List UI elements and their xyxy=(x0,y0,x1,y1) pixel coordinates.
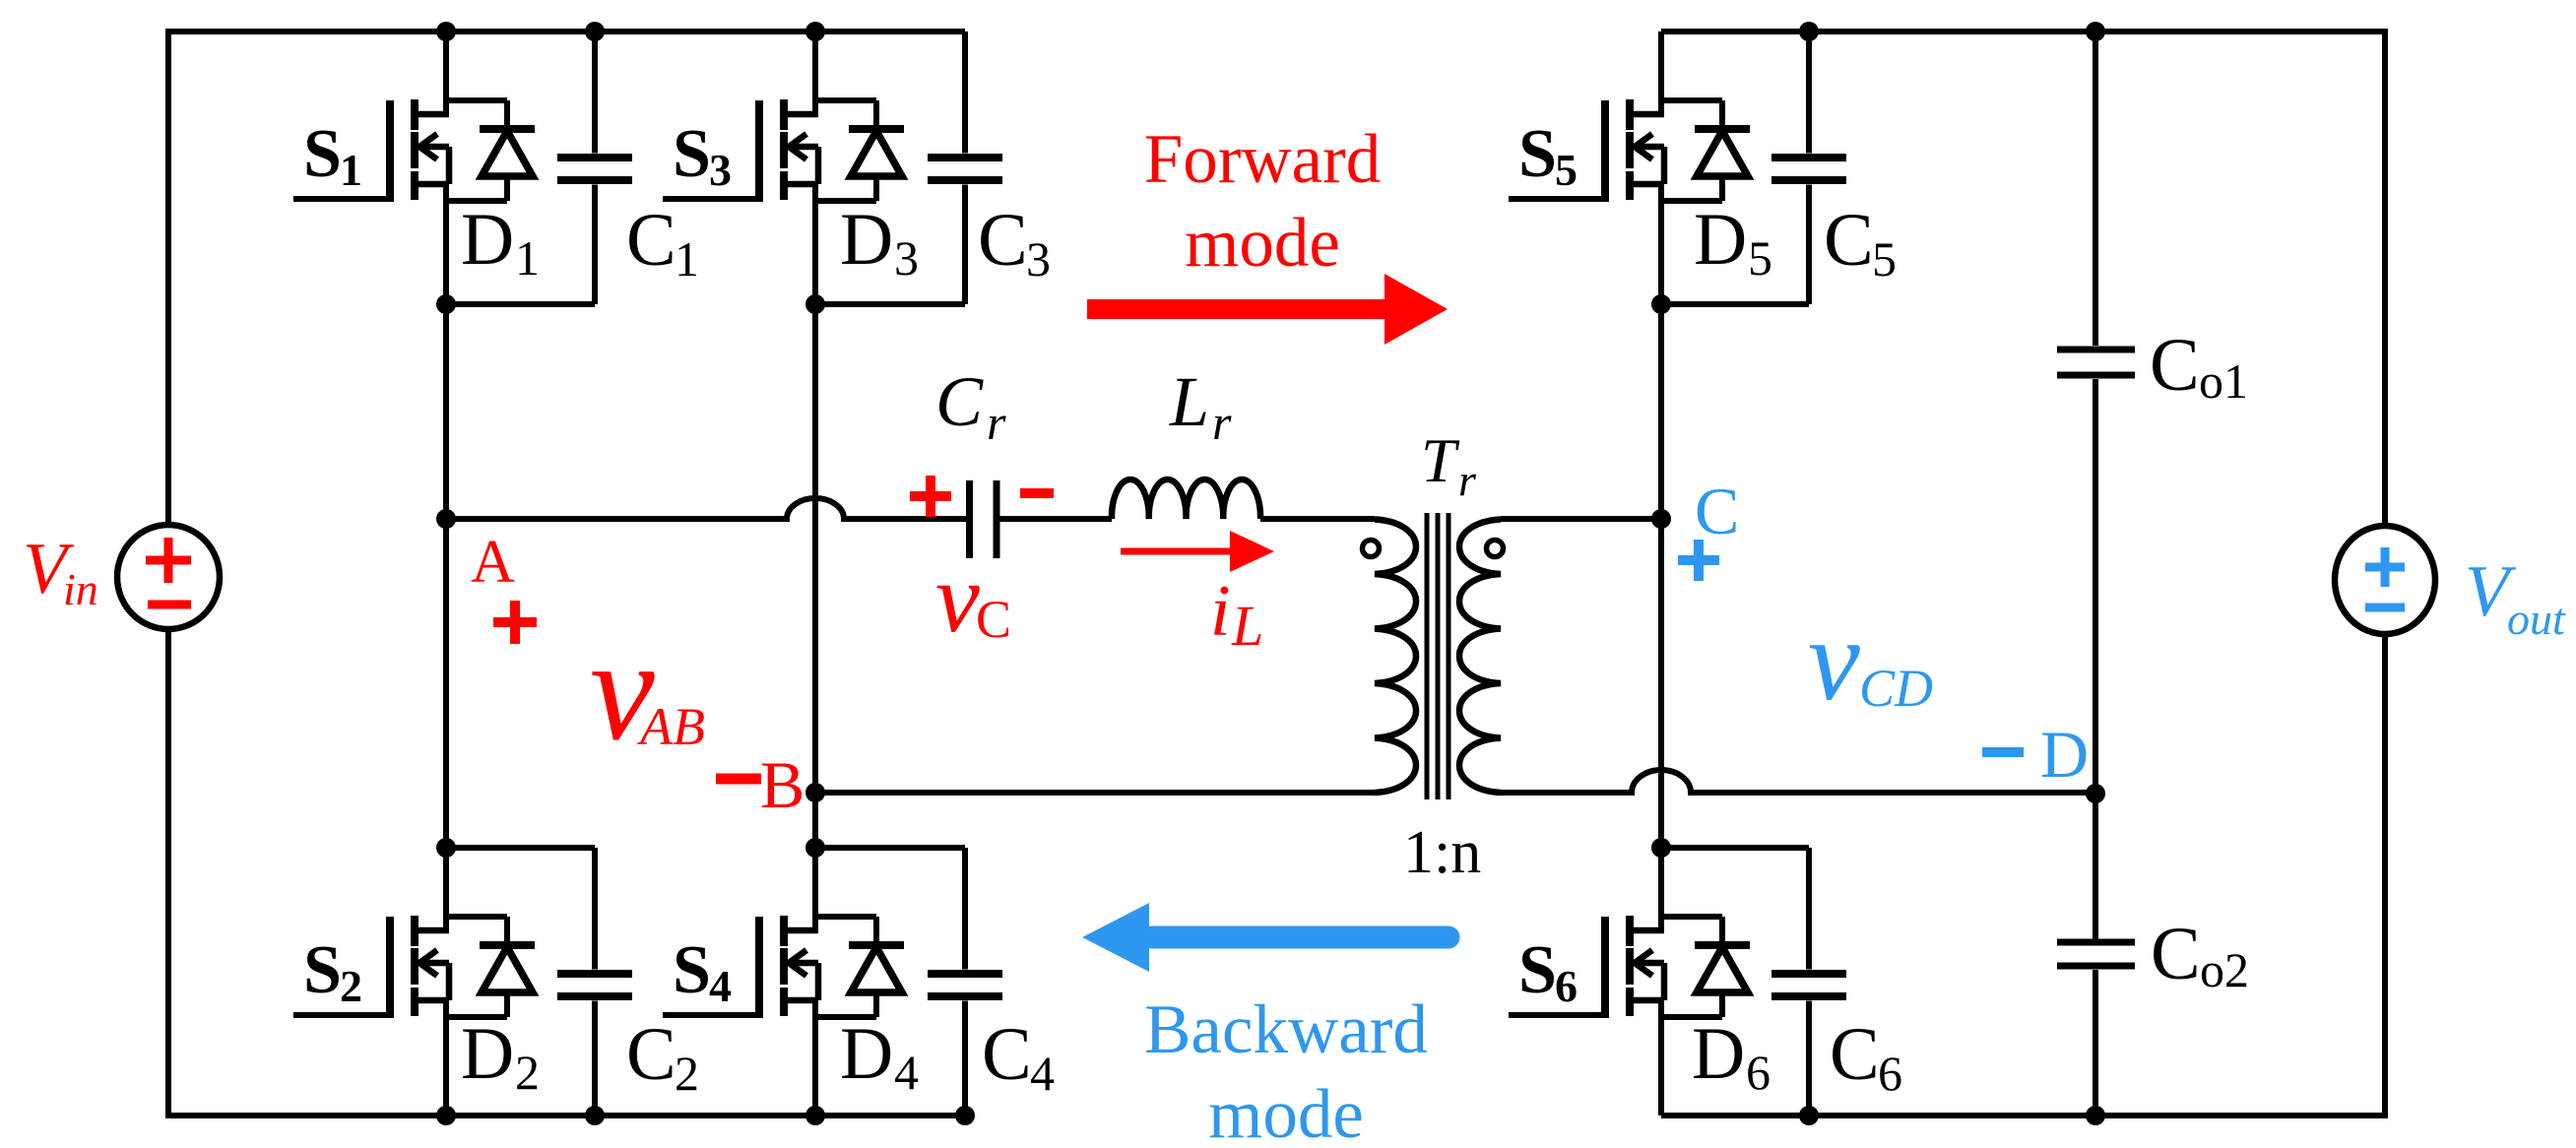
svg-text:D: D xyxy=(1694,199,1747,281)
svg-text:1: 1 xyxy=(340,145,362,195)
svg-text:4: 4 xyxy=(1030,1046,1055,1101)
svg-text:C: C xyxy=(626,1013,676,1096)
svg-text:5: 5 xyxy=(1555,145,1578,195)
svg-text:mode: mode xyxy=(1208,1076,1364,1148)
svg-text:r: r xyxy=(1212,395,1232,450)
svg-text:4: 4 xyxy=(894,1045,919,1100)
svg-text:C: C xyxy=(935,362,984,441)
svg-text:3: 3 xyxy=(894,230,919,286)
svg-text:AB: AB xyxy=(637,697,705,756)
svg-text:5: 5 xyxy=(1748,230,1772,286)
svg-text:3: 3 xyxy=(709,145,732,195)
svg-text:S: S xyxy=(303,932,342,1008)
svg-text:C: C xyxy=(1695,474,1739,548)
svg-text:L: L xyxy=(1231,594,1263,658)
svg-text:1: 1 xyxy=(515,230,540,286)
svg-text:i: i xyxy=(1210,571,1231,652)
svg-text:2: 2 xyxy=(340,961,362,1011)
svg-text:C: C xyxy=(626,199,676,282)
svg-text:Backward: Backward xyxy=(1144,991,1428,1068)
svg-text:D: D xyxy=(461,1013,514,1095)
svg-text:C: C xyxy=(976,590,1011,649)
svg-text:S: S xyxy=(1518,932,1557,1008)
svg-text:1:n: 1:n xyxy=(1403,819,1481,886)
svg-text:D: D xyxy=(840,1013,893,1095)
svg-text:2: 2 xyxy=(515,1045,540,1100)
svg-text:5: 5 xyxy=(1872,231,1897,287)
svg-text:Forward: Forward xyxy=(1144,121,1382,198)
svg-text:S: S xyxy=(673,116,711,192)
svg-text:C: C xyxy=(2150,324,2200,407)
svg-text:out: out xyxy=(2507,594,2566,644)
svg-text:S: S xyxy=(1518,116,1557,192)
svg-text:C: C xyxy=(978,199,1028,282)
svg-text:in: in xyxy=(63,564,98,614)
svg-text:v: v xyxy=(1808,595,1860,725)
svg-text:o1: o1 xyxy=(2199,353,2248,409)
svg-text:r: r xyxy=(1458,455,1477,505)
svg-text:C: C xyxy=(1830,1013,1880,1096)
svg-text:v: v xyxy=(935,542,980,653)
svg-text:A: A xyxy=(471,529,515,596)
svg-text:4: 4 xyxy=(709,961,732,1011)
svg-text:B: B xyxy=(760,747,805,822)
svg-text:L: L xyxy=(1169,362,1209,441)
svg-text:C: C xyxy=(2151,913,2201,995)
svg-text:D: D xyxy=(2040,717,2089,792)
svg-text:D: D xyxy=(1692,1013,1745,1095)
svg-text:C: C xyxy=(982,1013,1032,1096)
svg-text:6: 6 xyxy=(1746,1045,1771,1100)
svg-text:CD: CD xyxy=(1859,659,1933,718)
svg-text:o2: o2 xyxy=(2200,942,2249,997)
svg-text:2: 2 xyxy=(675,1046,699,1101)
svg-text:D: D xyxy=(840,199,893,281)
svg-text:C: C xyxy=(1824,199,1874,282)
svg-text:6: 6 xyxy=(1555,961,1578,1011)
svg-text:D: D xyxy=(461,199,514,281)
svg-text:T: T xyxy=(1421,425,1460,495)
svg-text:3: 3 xyxy=(1026,231,1051,287)
svg-text:r: r xyxy=(987,395,1006,450)
svg-text:mode: mode xyxy=(1185,205,1340,282)
svg-text:6: 6 xyxy=(1878,1046,1902,1101)
svg-text:S: S xyxy=(303,116,342,192)
svg-text:1: 1 xyxy=(675,231,699,287)
svg-text:S: S xyxy=(673,932,711,1008)
